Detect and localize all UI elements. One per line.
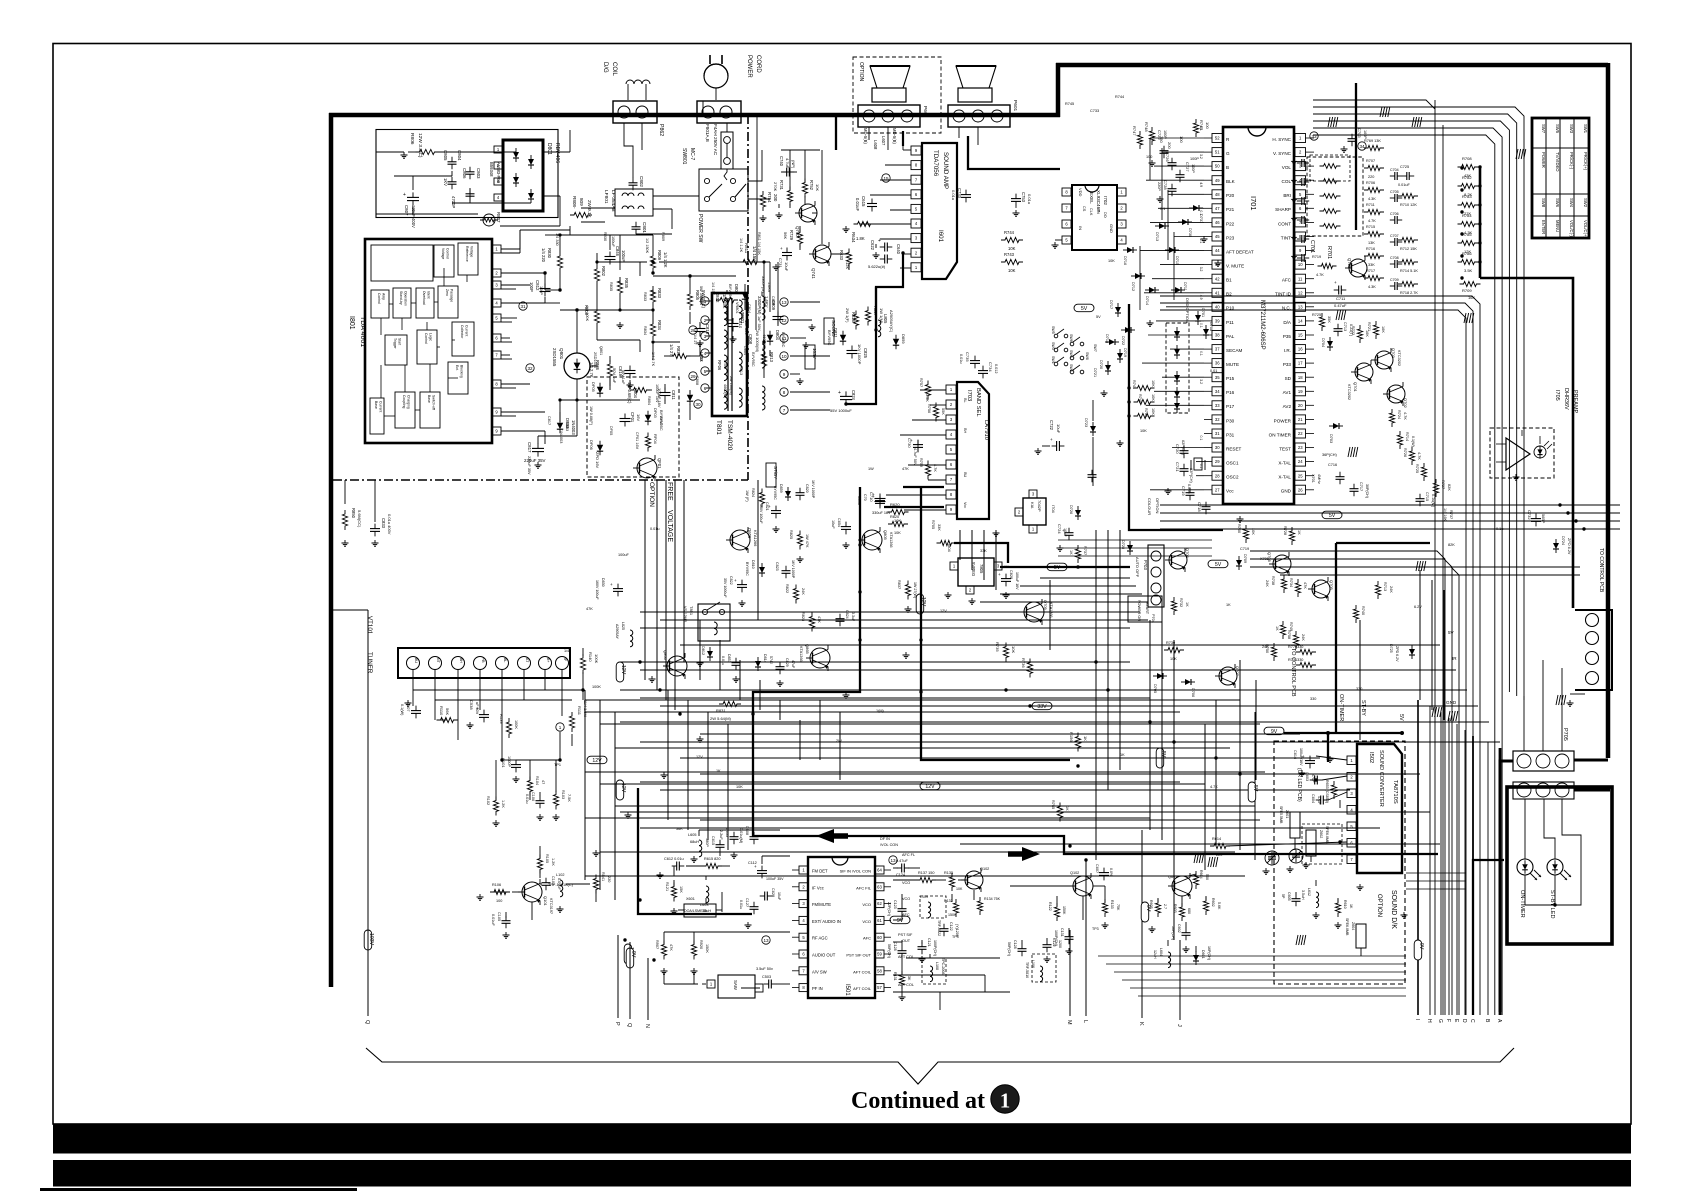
svg-text:X701: X701: [1311, 474, 1315, 483]
bottom feed b2: [1406, 880, 1466, 882]
svg-text:MUTE: MUTE: [1226, 362, 1239, 367]
capacitor C102 0.01uF: [542, 876, 562, 891]
I702 pin 5: [1062, 236, 1071, 244]
svg-text:H: H: [1426, 1019, 1432, 1023]
label LF801 LF-354AB: [603, 190, 616, 212]
svg-text:SW4: SW4: [1569, 198, 1574, 208]
resistor R715 13K: [1364, 225, 1384, 245]
power label 20: [699, 354, 703, 362]
bold rail B: [921, 487, 1070, 760]
svg-text:Z601: Z601: [1285, 810, 1289, 818]
svg-text:47K: 47K: [586, 607, 593, 611]
svg-text:RF AGC: RF AGC: [812, 936, 828, 941]
svg-text:0.01uF: 0.01uF: [855, 198, 860, 211]
svg-text:4: 4: [704, 351, 707, 356]
svg-text:BLK: BLK: [1226, 179, 1236, 184]
power label 27: [527, 456, 531, 475]
resistor R733 10K: [1134, 408, 1156, 419]
pill 12V t1: [616, 662, 626, 682]
table cell SW2: [1583, 198, 1588, 208]
svg-text:1W: 1W: [868, 467, 874, 471]
svg-text:SW4: SW4: [1069, 350, 1073, 358]
svg-text:100: 100: [496, 899, 502, 903]
resistor R140 100K: [580, 652, 599, 674]
svg-text:13: 13: [781, 300, 787, 305]
svg-text:L608: L608: [873, 140, 878, 150]
resistor R725 35K: [1312, 313, 1331, 331]
svg-text:C705: C705: [1390, 190, 1399, 194]
diode D709: [1236, 554, 1247, 570]
svg-text:0.01u: 0.01u: [525, 794, 529, 804]
svg-text:Blocking: Blocking: [460, 365, 464, 378]
svg-text:Q701: Q701: [1353, 382, 1358, 393]
bridge diode 1: [513, 148, 519, 162]
junction 17: [543, 271, 546, 274]
fan wire 5: [585, 771, 1265, 773]
fan vwire 4: [667, 690, 669, 820]
capacitor C820 1KV 1000P: [796, 480, 816, 500]
svg-text:D721: D721: [1093, 368, 1097, 377]
svg-text:1K: 1K: [1297, 530, 1301, 535]
I801 block ext blocking: [448, 362, 468, 394]
power label 14: [711, 282, 715, 296]
svg-text:0.1(W): 0.1(W): [1411, 436, 1415, 447]
hatch mark 8: [1194, 853, 1204, 863]
svg-text:22: 22: [1298, 431, 1303, 436]
bus wire v15: [1419, 570, 1421, 700]
svg-text:3.5K: 3.5K: [1464, 268, 1473, 273]
svg-text:(NP): (NP): [791, 160, 796, 169]
resistor R745 100: [1193, 119, 1210, 137]
svg-text:100: 100: [1179, 136, 1184, 143]
svg-text:100uF 16V: 100uF 16V: [1015, 572, 1019, 590]
capacitor C728 220P: [1157, 180, 1177, 196]
svg-text:D730: D730: [1188, 228, 1192, 237]
posistor enclosure box: [376, 130, 558, 218]
svg-text:TA8710S: TA8710S: [1392, 780, 1398, 804]
I502 pin 1: [1347, 756, 1356, 765]
svg-text:TP1: TP1: [554, 763, 561, 767]
transformer T801 box: [712, 293, 747, 416]
svg-text:(OR LED PCB): (OR LED PCB): [1296, 768, 1302, 802]
circled 31: [519, 302, 527, 310]
power label 34: [771, 296, 775, 305]
svg-text:23: 23: [1298, 445, 1303, 450]
svg-text:Q101: Q101: [543, 896, 548, 907]
svg-text:SW801: SW801: [681, 148, 687, 165]
svg-text:Q: Q: [626, 1023, 632, 1028]
svg-text:I: I: [1414, 1019, 1420, 1020]
diode D717: [1109, 300, 1121, 317]
capacitor C730 4.7uF 50V: [907, 438, 923, 466]
svg-text:574J: 574J: [769, 656, 773, 664]
svg-text:Z604: Z604: [1351, 922, 1355, 930]
I501 pin 64 SIF IN /VOL CON: [840, 866, 891, 874]
svg-text:C825: C825: [863, 348, 868, 359]
svg-text:ZPD 6.2V: ZPD 6.2V: [1567, 538, 1571, 555]
svg-text:P602: P602: [922, 106, 928, 118]
transistor Q707: [1215, 664, 1240, 688]
value label 1: [1146, 155, 1152, 159]
value label 9: [1004, 565, 1009, 569]
resistor R785 12K: [1458, 232, 1482, 254]
svg-text:5W 39(C): 5W 39(C): [699, 286, 703, 303]
svg-text:R712 15K: R712 15K: [1400, 247, 1417, 251]
ground extra 15: [697, 736, 704, 742]
R701 res 4: [1320, 209, 1341, 214]
capacitor C710 330uF 16V: [869, 492, 891, 515]
bus wire v28: [995, 530, 997, 590]
svg-text:24K: 24K: [1389, 586, 1393, 593]
bold wire speaker: [888, 115, 904, 146]
circled 32: [526, 364, 534, 372]
svg-text:Vcc: Vcc: [963, 502, 967, 508]
resistor R105 1.2K: [537, 854, 555, 874]
svg-text:5V: 5V: [1252, 785, 1258, 792]
bus long vertical 1443: [1442, 125, 1444, 1015]
bus wire v22: [759, 680, 761, 710]
svg-text:L604: L604: [1159, 948, 1163, 956]
svg-text:100K: 100K: [594, 654, 599, 664]
svg-text:1N4003: 1N4003: [571, 420, 576, 435]
svg-text:+: +: [878, 238, 881, 244]
svg-text:SW8: SW8: [1541, 198, 1546, 208]
svg-text:BL: BL: [963, 398, 967, 403]
label I705 DHR36V PREAMP: [1554, 388, 1578, 414]
svg-text:21: 21: [1298, 417, 1303, 422]
capacitor C705: [1390, 190, 1402, 202]
dashed box C701 R701: [1307, 157, 1363, 236]
svg-text:B+: B+: [546, 658, 550, 663]
fan wire 9: [600, 851, 1235, 853]
IC I703 LA7910 box: [957, 382, 989, 519]
svg-text:AFT DEFEAT: AFT DEFEAT: [1226, 250, 1254, 255]
transistor Q705: [1308, 577, 1334, 601]
resistor RF04 1/4 5.1K: [645, 433, 658, 452]
bus wire h16: [660, 789, 1350, 791]
svg-text:2W 1(F): 2W 1(F): [845, 308, 850, 323]
svg-text:C123: C123: [893, 900, 897, 909]
table cell SW1: [1583, 124, 1588, 134]
svg-text:RESET: RESET: [1226, 446, 1242, 451]
R701 res 2: [1320, 179, 1341, 184]
svg-text:C808: C808: [695, 376, 699, 385]
sw bus line 1: [1058, 539, 1212, 541]
dash-dot vertical power boundary: [747, 115, 749, 480]
transistor Q805 KTA1266: [858, 527, 893, 553]
resistor R712 15K: [1398, 237, 1418, 251]
svg-text:C727: C727: [1185, 162, 1190, 172]
svg-text:SW6: SW6: [1555, 198, 1560, 208]
tuner pin BH: [452, 657, 465, 670]
I701 pin 11 AFC: [1282, 274, 1314, 283]
I701 pin 43 V. MUTE: [1204, 260, 1244, 269]
I701 pin 15 P35: [1283, 331, 1314, 340]
I501 pin 3 FM/MUTE: [792, 900, 831, 908]
diode D859 BYV95C: [893, 334, 906, 349]
svg-text:C808: C808: [748, 334, 753, 345]
diode D704: [1321, 337, 1333, 351]
tuner pin BU: [407, 657, 420, 670]
resistor R731 270K: [773, 180, 793, 206]
svg-text:1N4003: 1N4003: [559, 430, 563, 443]
C701 cap 5: [1291, 235, 1309, 243]
svg-text:BAND SEL: BAND SEL: [975, 388, 981, 417]
bus wire h7: [620, 689, 1467, 691]
svg-text:5V: 5V: [1160, 751, 1166, 758]
I501 pin 5 RF AGC: [792, 933, 828, 941]
svg-text:C801: C801: [642, 222, 647, 233]
bus wire top 3: [1313, 121, 1509, 692]
capacitor C106 0.01u: [525, 792, 545, 808]
svg-text:9: 9: [783, 372, 786, 377]
T801 sec pin 8: [780, 388, 788, 396]
power label 32: [757, 316, 761, 331]
svg-text:9V: 9V: [1145, 905, 1151, 912]
ground extra 9: [945, 592, 952, 598]
I703 pin 5: [946, 445, 956, 454]
bus wire h11: [700, 733, 1300, 735]
svg-text:C107: C107: [406, 702, 411, 712]
svg-text:AFC FL: AFC FL: [902, 853, 915, 857]
svg-text:33K: 33K: [980, 549, 987, 553]
ground g2: [627, 382, 634, 388]
ground extra 4: [1101, 390, 1108, 396]
svg-text:160V 100uF: 160V 100uF: [595, 580, 599, 600]
svg-text:AFT COIL: AFT COIL: [853, 969, 872, 974]
svg-text:R744: R744: [1004, 230, 1015, 235]
capacitor C825 1KV 1000P: [847, 344, 869, 365]
svg-text:2W 9.1K: 2W 9.1K: [587, 200, 592, 219]
fan vwire 6: [707, 712, 709, 840]
svg-text:I501: I501: [844, 984, 850, 996]
svg-text:Q703: Q703: [1391, 348, 1396, 359]
I801 pin 4: [492, 299, 501, 307]
svg-text:LA7910: LA7910: [983, 420, 989, 440]
svg-text:0.1(W): 0.1(W): [400, 704, 404, 716]
capacitor C718 WV: [1197, 502, 1211, 515]
svg-text:0.1: 0.1: [1199, 239, 1203, 244]
diode D811 BYV95C: [827, 328, 846, 345]
svg-text:10K: 10K: [956, 887, 963, 891]
svg-text:C829: C829: [785, 658, 789, 667]
resistor R714b: [1397, 431, 1415, 449]
svg-text:0.1: 0.1: [1199, 351, 1203, 356]
I701 pin 50 B: [1204, 162, 1229, 171]
capacitor C703 160P: [1341, 128, 1368, 152]
svg-text:B: B: [1226, 165, 1229, 170]
svg-text:100uF: 100uF: [618, 553, 629, 557]
svg-text:C704: C704: [1390, 168, 1399, 172]
svg-text:30P(CH): 30P(CH): [1365, 484, 1369, 498]
fan wire 10: [585, 875, 1245, 877]
svg-text:OPTION: OPTION: [858, 62, 864, 82]
I703 pin names: [963, 398, 967, 508]
svg-text:220: 220: [1368, 175, 1374, 179]
svg-text:55K: 55K: [941, 408, 945, 415]
svg-text:560: 560: [1205, 874, 1209, 880]
resistor R732 1K: [1171, 597, 1189, 615]
resistor R725b: [1415, 463, 1427, 481]
bus wire control 2: [1160, 512, 1620, 514]
T801 circled 29: [689, 372, 697, 380]
svg-text:10uF: 10uF: [777, 892, 781, 901]
svg-text:4.7K: 4.7K: [1403, 412, 1407, 420]
svg-text:L605: L605: [688, 833, 696, 837]
junction 7: [638, 660, 641, 663]
bus wire control3 1: [1280, 566, 1580, 568]
svg-text:D811: D811: [833, 328, 838, 338]
capacitor C130 1200: [1043, 938, 1063, 952]
svg-text:470P: 470P: [1311, 774, 1315, 783]
svg-text:68uH: 68uH: [690, 840, 699, 844]
svg-text:SW2: SW2: [1583, 198, 1588, 208]
pill 6V b: [890, 916, 910, 924]
transistor Q702: [1383, 382, 1408, 409]
svg-text:SW1: SW1: [1051, 356, 1055, 364]
svg-text:R826: R826: [851, 312, 856, 323]
value label 32: [564, 649, 569, 653]
label M37211M2-606SP: [1259, 300, 1265, 350]
svg-text:R747: R747: [1132, 126, 1137, 136]
I801 block base-current amp: [371, 245, 433, 281]
svg-text:Stand-by: Stand-by: [399, 291, 403, 305]
matrix diode d: [1174, 387, 1180, 401]
svg-text:SW3: SW3: [1051, 342, 1055, 350]
I701 pin 4 COL: [1282, 176, 1314, 185]
ground sec1: [809, 324, 816, 330]
terminal letter H: [1426, 706, 1432, 1023]
junction 18: [558, 288, 561, 291]
svg-text:BRI: BRI: [1283, 193, 1291, 198]
svg-text:P601: P601: [1012, 100, 1018, 112]
svg-text:KTA1266: KTA1266: [889, 532, 893, 548]
ground extra 14: [1401, 912, 1408, 918]
svg-text:R823: R823: [801, 612, 805, 621]
bus wire v24: [799, 720, 801, 760]
svg-text:62P(CH): 62P(CH): [1189, 468, 1193, 484]
power label 8: [539, 286, 543, 295]
svg-text:R604: R604: [1199, 870, 1203, 879]
svg-text:CORD: CORD: [755, 55, 761, 73]
fan vwire 12: [1204, 724, 1206, 870]
svg-text:CONT: CONT: [1278, 221, 1291, 226]
ground g3: [697, 340, 704, 346]
T801 pin 1: [701, 297, 709, 305]
label 3.5uF 50v C503: [756, 967, 776, 989]
svg-text:SW3: SW3: [1569, 124, 1574, 134]
I801 pin 6: [492, 334, 501, 342]
hatch mark 1: [1412, 117, 1422, 127]
value label 13: [1226, 603, 1231, 607]
svg-text:D812: D812: [701, 646, 705, 655]
bridge diode 3: [513, 173, 519, 187]
svg-text:4.7K: 4.7K: [1210, 785, 1218, 789]
svg-text:48: 48: [1215, 192, 1220, 197]
I701 pin 28 OSC2: [1204, 471, 1239, 480]
svg-text:D724: D724: [1561, 536, 1565, 545]
bus wire v3: [674, 480, 676, 710]
svg-text:R804: R804: [647, 396, 651, 405]
bold feed row2: [1574, 789, 1610, 792]
bold rail J: [1473, 860, 1504, 1015]
bottom feed 2: [1106, 963, 1406, 965]
value label 21: [1310, 697, 1316, 701]
power label 43: [547, 416, 551, 425]
resistor R133 75K: [1102, 899, 1120, 917]
ground g-z: [1263, 862, 1310, 874]
capacitor C101 1000P: [501, 756, 521, 772]
resistor R718 2.7K: [1398, 281, 1418, 295]
bold rail D: [1129, 304, 1223, 530]
resistor R717 4.3K: [1364, 269, 1384, 289]
svg-text:10K: 10K: [1008, 246, 1016, 251]
svg-text:47K: 47K: [669, 944, 673, 951]
svg-text:R808-: R808-: [572, 196, 577, 209]
resistor R833 1/2 100K: [650, 286, 662, 306]
svg-text:D711: D711: [1183, 282, 1187, 291]
I703 pin 9: [946, 505, 956, 514]
resistor R710 12K: [1398, 193, 1418, 207]
resistor R121 15K: [665, 882, 683, 902]
I702 pin 6: [1062, 220, 1071, 228]
capacitor C720 62P(CH): [1175, 440, 1189, 458]
svg-text:Voltage: Voltage: [470, 246, 474, 257]
diode D814 574J: [755, 654, 773, 671]
ground gnd-r754: [760, 215, 767, 221]
capacitor C622 WV 47uF: [870, 238, 892, 252]
capacitor C607: [1095, 864, 1113, 880]
svg-text:T851: T851: [689, 606, 694, 616]
svg-text:0.01u: 0.01u: [739, 900, 743, 909]
svg-text:R744: R744: [1115, 95, 1124, 99]
junction 14: [1106, 688, 1109, 691]
svg-text:R602: R602: [1211, 898, 1215, 907]
coil L605 68uH: [688, 833, 702, 857]
svg-text:35: 35: [1215, 375, 1220, 380]
svg-text:42: 42: [1215, 276, 1220, 281]
svg-text:2.7: 2.7: [1163, 904, 1167, 909]
bold arrow left: [816, 829, 848, 843]
I701 pin 37 SECAM: [1204, 345, 1243, 354]
svg-text:POWER: POWER: [1274, 418, 1292, 423]
capacitor C846 100uF: [605, 246, 627, 265]
C701 cap 4: [1291, 216, 1309, 224]
diode D705 D706: [1153, 673, 1195, 697]
pill 5V q705: [1208, 560, 1228, 568]
svg-text:+: +: [734, 578, 737, 583]
svg-text:PST SIF OUT: PST SIF OUT: [846, 953, 871, 958]
C701 cap 1: [1291, 159, 1309, 167]
svg-text:5.6K: 5.6K: [1217, 902, 1221, 910]
svg-text:P862: P862: [658, 124, 664, 136]
resistor R603 680: [1173, 903, 1191, 921]
ground g-conn: [1567, 694, 1586, 706]
terminal letter C: [1469, 736, 1475, 1023]
label AFC FL: [902, 853, 915, 857]
resistor R705 33K: [931, 520, 956, 546]
capacitor C802: [629, 176, 645, 190]
resistor R756 55K: [927, 403, 945, 422]
svg-text:R615 820: R615 820: [704, 857, 720, 861]
I801 block voltage control: [434, 245, 454, 277]
ground extra 1: [1201, 236, 1208, 242]
svg-text:19: 19: [1298, 389, 1303, 394]
svg-text:X-TAL: X-TAL: [1278, 475, 1291, 480]
bus wire h6: [640, 669, 1456, 671]
junction 37: [1558, 503, 1561, 506]
svg-text:D830: D830: [601, 578, 605, 587]
